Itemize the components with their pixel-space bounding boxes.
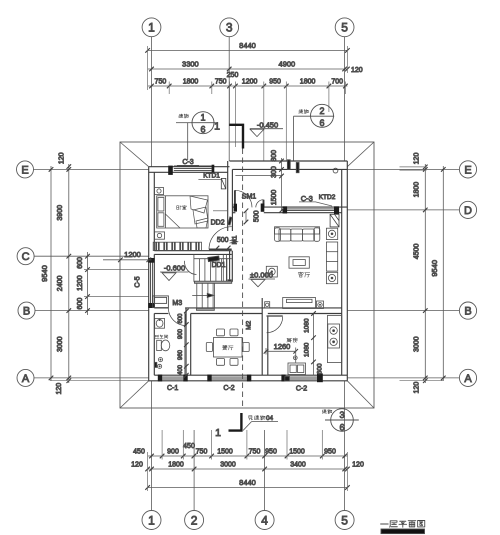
svg-text:3000: 3000 — [220, 462, 236, 469]
note 见建施04 — [243, 415, 278, 431]
rain pipe circle on E parapet — [333, 168, 338, 173]
cabinet column right wall: shelves — [326, 242, 337, 271]
label bedroom 卧室 — [177, 205, 187, 209]
svg-text:1800: 1800 — [183, 78, 199, 85]
grid line 3 (vertical axis, top only) — [228, 37, 230, 161]
svg-text:C-2: C-2 — [296, 386, 307, 393]
door M2 kitchen — [267, 316, 283, 333]
svg-text:500: 500 — [217, 237, 229, 244]
window C-2 dining (A wall) — [207, 375, 251, 382]
svg-text:4500: 4500 — [413, 244, 420, 260]
svg-text:450: 450 — [133, 448, 145, 455]
svg-text:120: 120 — [131, 462, 143, 469]
svg-text:E: E — [21, 164, 28, 176]
svg-text:-0.450: -0.450 — [257, 120, 278, 129]
svg-text:750: 750 — [215, 78, 227, 85]
wall block living west end — [228, 280, 231, 283]
svg-text:DD1: DD1 — [211, 262, 225, 269]
extension lines top chain — [148, 46, 348, 161]
coffee table living room — [289, 257, 309, 268]
wall B (living south / dining north) — [185, 308, 342, 314]
window label C-3 bedroom — [177, 159, 199, 166]
svg-text:C-2: C-2 — [223, 385, 234, 392]
svg-text:1: 1 — [215, 427, 221, 439]
svg-text:750: 750 — [249, 448, 261, 455]
flue KTD1 duct — [221, 178, 226, 189]
extension lines right chain — [400, 167, 444, 381]
svg-text:1260: 1260 — [274, 342, 291, 351]
extension lines bottom chain — [148, 430, 348, 491]
dimension 500 below D wall (section line) — [244, 209, 249, 225]
svg-text:C-3: C-3 — [301, 194, 313, 203]
dimension line bottom 120/1800/3000/3400/120 — [145, 467, 349, 472]
grid circle 5 top — [335, 18, 354, 37]
window C-2 kitchen (A wall) — [281, 373, 322, 382]
wall bathroom east — [185, 314, 191, 376]
svg-text:A: A — [22, 373, 30, 385]
grid circle 1 top — [142, 18, 161, 37]
wall exterior E top-left (grid1 to grid3) — [149, 167, 230, 173]
speaker box living sw — [266, 266, 277, 277]
svg-text:C-1: C-1 — [167, 385, 178, 392]
svg-text:600: 600 — [77, 298, 84, 310]
svg-text:M1: M1 — [231, 235, 238, 244]
svg-text:900: 900 — [178, 328, 184, 339]
staircase treads lower flight — [197, 282, 215, 308]
grid circle C left — [17, 248, 34, 265]
window C-3 bedroom (E wall) — [168, 165, 214, 175]
kitchen floor drain — [293, 356, 297, 360]
kitchen dimension chain 1080/1080/600 — [311, 311, 316, 375]
label dining 餐厅 — [222, 345, 233, 350]
TV bench end box left — [265, 302, 270, 308]
grid circle 1 bottom — [142, 511, 161, 530]
wall bathroom north — [154, 308, 168, 314]
svg-text:04: 04 — [266, 415, 273, 422]
svg-text:900: 900 — [167, 448, 179, 455]
level marker -0.450 entry outside — [250, 120, 283, 136]
svg-text:1500: 1500 — [217, 448, 233, 455]
svg-text:KTD1: KTD1 — [203, 172, 220, 179]
svg-text:M3: M3 — [172, 300, 182, 307]
dimension line left detail 600/1200/600 — [85, 252, 90, 315]
dining chairs — [206, 329, 249, 365]
svg-text:4: 4 — [261, 513, 268, 527]
grid circle A left — [17, 369, 34, 386]
svg-text:300: 300 — [271, 166, 278, 178]
svg-text:750: 750 — [196, 448, 208, 455]
svg-text:5: 5 — [341, 513, 348, 527]
dimension line top overall 8440 — [145, 48, 349, 53]
bathroom pipe block — [155, 362, 157, 367]
dimension line bottom overall 8440 — [145, 485, 349, 490]
grid line 4 (vertical axis, bottom only) — [264, 430, 266, 510]
bathroom dimension chain 600/900/960/400 — [184, 309, 189, 378]
svg-text:1500: 1500 — [271, 190, 278, 206]
flue KTD2 duct — [330, 214, 339, 227]
kitchen counter right — [328, 315, 342, 362]
svg-text:950: 950 — [269, 78, 281, 85]
svg-text:120: 120 — [413, 382, 420, 394]
label bathroom 卫生间 — [155, 335, 168, 338]
roof eave outline — [120, 142, 374, 408]
dimension line left overall 9540 — [49, 166, 54, 381]
svg-text:5: 5 — [341, 21, 348, 35]
level marker ±0.000 living — [249, 271, 276, 287]
detail marker circle 2/6 — [294, 104, 335, 160]
door M1 bedroom — [209, 227, 232, 250]
eave corner diagonal top-left — [120, 142, 149, 167]
svg-text:6: 6 — [200, 125, 205, 135]
svg-text:-0.600: -0.600 — [164, 264, 185, 273]
window label C-3 living — [299, 194, 332, 206]
level marker -0.600 stair hall — [160, 264, 189, 281]
svg-text:3: 3 — [339, 410, 344, 420]
grid line 1 (vertical axis) — [151, 37, 153, 511]
grid line A (horizontal axis) — [34, 377, 459, 379]
window C-1 bathroom (A wall) — [158, 375, 188, 382]
svg-text:A: A — [464, 373, 472, 385]
svg-text:3000: 3000 — [413, 336, 420, 352]
svg-text:2400: 2400 — [57, 276, 64, 292]
svg-text:3300: 3300 — [182, 59, 199, 68]
svg-text:1200: 1200 — [242, 78, 258, 85]
grid circle 2 bottom — [185, 511, 204, 530]
wall bedroom south — [154, 251, 231, 255]
label kitchen 厨房 — [287, 338, 298, 343]
wall living west — [230, 251, 233, 282]
window C-3/KTD2 living room (D wall) — [283, 206, 340, 214]
svg-text:SM1: SM1 — [242, 194, 257, 201]
svg-text:120: 120 — [352, 462, 364, 469]
wall block kitchen sw — [285, 376, 290, 381]
svg-text:1: 1 — [148, 21, 155, 35]
dimension line right overall 9540 — [441, 166, 446, 381]
bathroom floor drain circles — [158, 358, 163, 369]
svg-text:E: E — [464, 164, 471, 176]
svg-text:M2: M2 — [246, 320, 253, 329]
svg-text:6: 6 — [319, 118, 324, 128]
svg-text:700: 700 — [331, 78, 343, 85]
svg-text:1080: 1080 — [304, 342, 311, 357]
grid circle A right — [459, 369, 476, 386]
kitchen sink — [288, 363, 306, 375]
grid line D (horizontal axis, right only) — [347, 209, 459, 211]
svg-text:1200: 1200 — [77, 275, 84, 291]
grid line E (horizontal axis) — [34, 168, 460, 170]
grid circle D right — [459, 201, 476, 218]
label living 客厅 — [298, 272, 310, 277]
grid line 5 (vertical axis) — [344, 37, 346, 511]
svg-text:950: 950 — [324, 448, 336, 455]
dimension line top 3300/4900/120 — [148, 67, 350, 72]
svg-text:KTD2: KTD2 — [319, 194, 336, 201]
svg-text:1: 1 — [200, 113, 205, 123]
grid line C (horizontal axis, left only) — [34, 255, 149, 257]
svg-text:1500: 1500 — [289, 448, 305, 455]
wall exterior right grid5 — [342, 161, 348, 381]
svg-text:120: 120 — [413, 153, 420, 165]
svg-text:250: 250 — [227, 72, 239, 79]
dimension line bottom detail 450/900/450/750/1500/750/950/1500/950 — [148, 454, 348, 459]
svg-text:3400: 3400 — [290, 462, 306, 469]
svg-text:120: 120 — [56, 383, 63, 395]
svg-text:960: 960 — [178, 349, 184, 360]
svg-text:1800: 1800 — [168, 462, 184, 469]
wall posts on E parapet — [287, 160, 290, 170]
svg-text:950: 950 — [265, 448, 277, 455]
svg-text:750: 750 — [155, 78, 167, 85]
svg-text:120: 120 — [351, 67, 363, 74]
svg-text:600: 600 — [77, 257, 84, 269]
wall extension line D inner face to bedroom wall — [213, 210, 228, 212]
svg-text:6: 6 — [339, 422, 344, 432]
stair handrail lines upper flight — [223, 255, 226, 282]
entry interior dimension 300/300/1500 — [279, 158, 284, 213]
svg-text:2: 2 — [319, 106, 324, 116]
window C-5 bathroom hall (left wall) — [148, 258, 154, 308]
wall exterior A bottom — [149, 375, 348, 381]
svg-text:D: D — [464, 205, 472, 217]
svg-text:450: 450 — [183, 443, 195, 450]
svg-text:1200: 1200 — [124, 250, 141, 259]
stair down-run arrow — [192, 293, 214, 297]
svg-text:8440: 8440 — [239, 41, 256, 50]
TV bench living south — [283, 298, 316, 309]
svg-text:3000: 3000 — [57, 336, 64, 352]
dimension line top detail 750/1800/750/250/1200/950/1800/700 — [148, 84, 348, 89]
detail marker circle 1/6 — [176, 112, 216, 160]
detail marker circle 3/6 — [322, 409, 359, 433]
grid line B (horizontal axis) — [35, 310, 459, 312]
svg-text:300: 300 — [271, 150, 278, 162]
door SM1 double leaf entry (D wall) — [234, 190, 265, 212]
svg-text:1800: 1800 — [413, 182, 420, 198]
door M3 bathroom — [168, 308, 186, 326]
wall kitchen west grid4 — [262, 298, 268, 375]
TV bench end box right — [317, 301, 324, 309]
bathroom sink — [155, 318, 165, 328]
dimension 500 at door M1 — [215, 237, 238, 251]
section cut symbol top — [229, 125, 243, 149]
cabinet column right wall: lower speaker — [326, 272, 337, 283]
svg-text:C-5: C-5 — [135, 276, 142, 287]
svg-text:9540: 9540 — [430, 260, 439, 277]
svg-text:B: B — [464, 306, 471, 318]
svg-text:400: 400 — [178, 364, 184, 375]
stair direction arrow — [208, 256, 219, 262]
grid circle E left — [17, 161, 34, 178]
dimension line left 120/3900/2400/3000/120 — [67, 164, 72, 383]
svg-text:1: 1 — [214, 121, 220, 133]
eave corner diagonal bottom-left — [120, 381, 149, 408]
staircase treads upper flight — [194, 254, 232, 281]
svg-text:600: 600 — [317, 363, 324, 374]
section cut symbol bottom — [229, 413, 242, 431]
section cut dashed line — [242, 149, 244, 407]
grid circle 5 bottom — [335, 511, 354, 530]
nightstand upper — [155, 188, 164, 195]
cabinet column right wall: upper speaker — [326, 228, 337, 239]
wall entry west (bedroom east) — [228, 161, 233, 231]
svg-text:1: 1 — [148, 513, 155, 527]
wall D (entry / living north) — [232, 207, 347, 213]
svg-text:3: 3 — [226, 21, 233, 35]
bed bedroom — [157, 196, 208, 228]
svg-text:8440: 8440 — [239, 478, 256, 487]
svg-text:600: 600 — [178, 313, 184, 324]
grid line 2 (vertical axis, bottom only) — [193, 430, 195, 510]
entry porch step line — [235, 175, 281, 177]
kitchen dimension 1260 — [264, 342, 298, 363]
svg-text:1800: 1800 — [300, 78, 316, 85]
extension lines left chain — [50, 270, 149, 381]
svg-text:4900: 4900 — [279, 59, 296, 68]
dining table — [214, 338, 243, 358]
svg-text:3900: 3900 — [57, 205, 64, 221]
grid circle 4 bottom — [255, 511, 274, 530]
eave corner diagonal bottom-right — [347, 381, 374, 408]
grid circle B right — [459, 302, 476, 319]
bathroom toilet — [157, 340, 170, 351]
svg-text:±0.000: ±0.000 — [250, 271, 273, 280]
svg-text:120: 120 — [59, 152, 66, 164]
grid circle 3 top — [220, 18, 239, 37]
grid circle E right — [459, 161, 476, 178]
nightstand lower — [155, 232, 165, 239]
label KTD1 — [198, 172, 221, 179]
svg-text:DD2: DD2 — [211, 220, 225, 227]
svg-text:500: 500 — [254, 210, 261, 222]
svg-text:C: C — [22, 251, 30, 263]
wall exterior left grid1 — [149, 167, 155, 381]
svg-text:1080: 1080 — [304, 318, 311, 333]
stair start handrail curve — [184, 261, 196, 275]
door jamb block DD2 (slanted) — [228, 217, 232, 225]
title 一层平面图 — [381, 521, 425, 534]
wall exterior E top-right parapet (grid3 to grid5) — [230, 161, 348, 169]
svg-text:B: B — [23, 306, 30, 318]
dimension line right 120/1800/4500/3000/120 — [423, 164, 428, 383]
svg-text:2: 2 — [191, 513, 198, 527]
stair landing edge strips — [195, 281, 232, 283]
dimension 1200 eave overhang (left of wall) — [103, 250, 152, 262]
sofa set living room — [275, 227, 320, 242]
svg-text:9540: 9540 — [40, 265, 49, 282]
grid circle B left — [18, 302, 35, 319]
shower closet square stair hall — [153, 296, 169, 308]
wardrobe strip bedroom — [153, 242, 201, 250]
eave corner diagonal top-right — [347, 142, 374, 167]
